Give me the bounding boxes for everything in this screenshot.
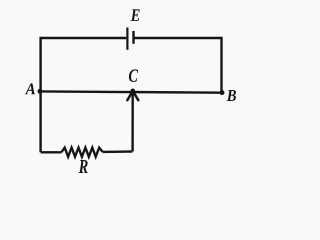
label E bbox=[131, 9, 140, 21]
wire A-B slide wire bbox=[41, 91, 222, 92]
label A bbox=[25, 83, 35, 94]
battery E short plate bbox=[132, 31, 134, 44]
wire bottom-left segment bbox=[41, 151, 62, 153]
arrowhead of sliding contact at C bbox=[127, 91, 138, 100]
node B junction dot bbox=[220, 90, 225, 95]
label B bbox=[227, 90, 236, 101]
wire bottom-right segment bbox=[103, 150, 133, 153]
battery E long plate bbox=[126, 28, 128, 50]
wire top-right segment (battery to corner, down to B) bbox=[135, 38, 222, 93]
wire sliding-contact shaft up to C bbox=[131, 93, 133, 152]
label C bbox=[129, 69, 138, 82]
arrow tip dot at C bbox=[131, 89, 135, 93]
wire top-left segment (corner to battery) bbox=[41, 38, 127, 152]
resistor R (zigzag) bbox=[61, 148, 102, 157]
label R bbox=[79, 160, 88, 173]
node A junction dot bbox=[38, 89, 43, 94]
